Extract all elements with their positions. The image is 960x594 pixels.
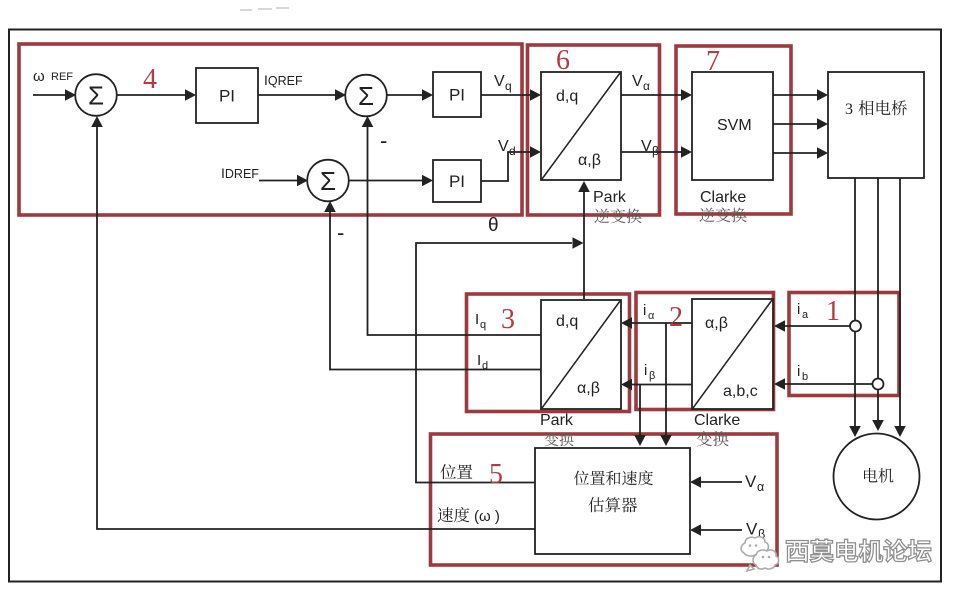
svg-text:α,β: α,β bbox=[577, 380, 600, 397]
svg-text:V: V bbox=[632, 73, 643, 90]
svg-text:SVM: SVM bbox=[717, 117, 752, 134]
svg-text:IDREF: IDREF bbox=[221, 165, 259, 181]
svg-text:Σ: Σ bbox=[88, 80, 104, 110]
svg-text:Park: Park bbox=[593, 189, 627, 206]
svg-text:i: i bbox=[644, 362, 647, 379]
svg-text:α,β: α,β bbox=[578, 152, 601, 169]
svg-text:-: - bbox=[380, 128, 387, 153]
svg-text:i: i bbox=[643, 302, 646, 319]
svg-text:2: 2 bbox=[669, 302, 683, 333]
svg-text:V: V bbox=[745, 472, 757, 491]
svg-text:α: α bbox=[648, 310, 655, 322]
svg-text:α,β: α,β bbox=[705, 315, 728, 332]
svg-text:d,q: d,q bbox=[556, 88, 578, 105]
svg-text:PI: PI bbox=[219, 87, 235, 106]
svg-text:q: q bbox=[505, 79, 512, 93]
svg-text:Σ: Σ bbox=[358, 81, 374, 111]
svg-text:1: 1 bbox=[826, 296, 840, 327]
svg-text:Clarke: Clarke bbox=[694, 412, 740, 429]
svg-text:6: 6 bbox=[556, 45, 570, 76]
svg-text:d: d bbox=[482, 360, 488, 372]
svg-text:β: β bbox=[649, 370, 655, 382]
svg-text:4: 4 bbox=[143, 64, 157, 95]
svg-text:3: 3 bbox=[845, 101, 853, 118]
svg-text:α: α bbox=[643, 79, 650, 93]
svg-text:q: q bbox=[480, 319, 486, 331]
svg-text:a: a bbox=[802, 309, 809, 321]
svg-text:θ: θ bbox=[488, 215, 499, 236]
svg-text:V: V bbox=[746, 520, 758, 539]
svg-text:α: α bbox=[757, 480, 764, 494]
svg-text:V: V bbox=[494, 73, 505, 90]
svg-text:i: i bbox=[797, 301, 800, 318]
svg-text:b: b bbox=[802, 371, 808, 383]
svg-text:d,q: d,q bbox=[556, 313, 578, 330]
svg-text:REF: REF bbox=[51, 71, 73, 83]
svg-text:I: I bbox=[477, 352, 481, 369]
svg-text:Clarke: Clarke bbox=[700, 189, 746, 206]
svg-text:-: - bbox=[337, 220, 344, 245]
svg-text:IQREF: IQREF bbox=[264, 72, 303, 88]
svg-text:I: I bbox=[475, 311, 479, 328]
svg-text:V: V bbox=[498, 138, 509, 155]
svg-text:a,b,c: a,b,c bbox=[723, 383, 758, 400]
svg-text:Σ: Σ bbox=[320, 166, 336, 196]
svg-text:7: 7 bbox=[706, 46, 720, 77]
svg-text:5: 5 bbox=[489, 459, 503, 490]
svg-text:d: d bbox=[509, 144, 516, 158]
svg-text:3: 3 bbox=[501, 304, 515, 335]
svg-text:V: V bbox=[641, 138, 652, 155]
svg-text:i: i bbox=[797, 363, 800, 380]
svg-text:(ω ): (ω ) bbox=[474, 508, 500, 525]
svg-text:PI: PI bbox=[449, 172, 465, 191]
svg-text:Park: Park bbox=[540, 412, 574, 429]
svg-text:ω: ω bbox=[33, 68, 45, 85]
svg-text:PI: PI bbox=[449, 86, 465, 105]
svg-text:β: β bbox=[652, 144, 659, 158]
